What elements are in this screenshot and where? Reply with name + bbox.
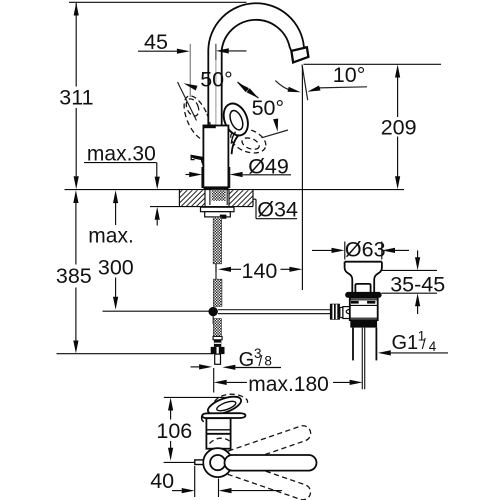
dimension 40	[150, 466, 282, 497]
faucet spout inner arc	[222, 20, 292, 126]
svg-text:4: 4	[429, 339, 437, 354]
dimension max.180	[214, 368, 363, 396]
angle label 50 deg (right swing)	[252, 96, 288, 138]
threaded shank in deck hole	[212, 190, 226, 201]
dimension 385	[56, 190, 92, 354]
mounting washer	[201, 207, 235, 212]
angle label 50 deg (left swing)	[178, 68, 259, 121]
loop handle tilted (plan view)	[206, 393, 244, 418]
aerator block at spout tip	[291, 47, 308, 62]
handle hub circle	[210, 455, 225, 470]
hose end ribbed nut	[214, 340, 221, 347]
hose end hex	[213, 336, 222, 339]
svg-text:Ø63: Ø63	[345, 237, 386, 261]
lever handle (side)	[191, 155, 204, 160]
svg-text:50°: 50°	[200, 68, 233, 92]
label G1 1/4	[378, 329, 448, 356]
counter deck hatched right	[229, 190, 253, 206]
faucet spout outer arc	[208, 3, 306, 125]
handle lever (solid position)	[225, 455, 317, 471]
dimension 106	[156, 398, 194, 463]
dimension 45	[138, 30, 247, 125]
dashed handle position down	[221, 458, 312, 500]
hose end level extension line	[57, 353, 214, 355]
G3/8 thread stem	[215, 354, 221, 364]
dashed handle position right	[227, 124, 269, 158]
counter deck hatched left	[179, 190, 205, 206]
svg-text:Ø34: Ø34	[257, 197, 298, 221]
svg-text:50°: 50°	[252, 96, 285, 120]
pop-up lift collar	[355, 284, 370, 292]
pop-up tail pipe	[352, 328, 354, 361]
tilted outlet axis line	[302, 65, 308, 101]
svg-text:10°: 10°	[333, 63, 366, 87]
deck bottom line	[150, 206, 253, 208]
hose axis segment	[215, 264, 217, 279]
body top thick cap	[204, 125, 216, 129]
junction of pop-up rod and hose	[209, 307, 218, 316]
svg-text:Ø49: Ø49	[248, 155, 289, 179]
mounting nut	[205, 212, 231, 217]
dimension Ø63	[312, 237, 409, 261]
flexible hose middle section	[213, 279, 222, 306]
svg-text:35-45: 35-45	[390, 273, 445, 297]
pop-up waste: coupling nut	[330, 304, 340, 320]
loop handle (solid, centre position)	[219, 100, 252, 154]
dashed handle swing arc (plan)	[215, 394, 248, 403]
pop-up waste top cup	[345, 261, 382, 263]
dimension 35-45	[382, 250, 446, 314]
tick line centre position (double arrow)	[238, 82, 259, 98]
pop-up body lower black band	[350, 320, 377, 328]
label G 3/8	[191, 346, 282, 371]
dimension 311	[59, 3, 93, 190]
lever tip curl	[202, 414, 204, 422]
svg-text:385: 385	[56, 264, 92, 288]
svg-text:300: 300	[98, 256, 134, 280]
supply level extension line	[103, 310, 210, 312]
svg-text:311: 311	[59, 86, 93, 110]
dimension max.300	[88, 190, 134, 310]
angle label 10 deg (spout outlet)	[275, 63, 367, 100]
pop-up body	[350, 298, 378, 320]
bottom view body	[206, 418, 230, 449]
svg-text:8: 8	[264, 354, 272, 369]
spout outlet vertical axis extension	[301, 66, 303, 290]
pop-up waste: rod connector	[340, 307, 343, 317]
dimension 209	[381, 65, 417, 190]
body base gasket	[204, 187, 229, 190]
flexible hose lower section	[213, 319, 221, 337]
dimension 140	[216, 259, 302, 284]
svg-text:G1: G1	[392, 332, 419, 354]
svg-text:140: 140	[242, 259, 278, 283]
deck reference line (counter top)	[65, 189, 405, 191]
pop-up actuator rod (horizontal)	[218, 309, 330, 311]
svg-text:max.180: max.180	[248, 373, 329, 396]
svg-text:G: G	[239, 349, 255, 371]
dimension max.30	[84, 143, 160, 226]
dimension Ø34	[190, 197, 298, 222]
rod bracket	[220, 215, 227, 219]
svg-text:209: 209	[381, 116, 417, 140]
base cap blade (plan view)	[202, 413, 245, 418]
svg-text:106: 106	[156, 419, 192, 443]
outlet stub	[195, 460, 203, 465]
tick line left position	[178, 82, 197, 121]
dashed handle position left	[179, 92, 217, 143]
hose end collar	[211, 347, 225, 354]
pop-up flange (black)	[345, 292, 381, 298]
spout outlet level extension line	[304, 63, 442, 65]
svg-text:45: 45	[144, 30, 168, 54]
dimension Ø49	[186, 155, 292, 189]
dashed handle position up	[221, 424, 312, 468]
deck edges	[178, 190, 180, 207]
flexible hose upper section	[213, 217, 221, 264]
escutcheon circle	[203, 448, 232, 477]
svg-text:max.: max.	[88, 225, 134, 248]
svg-text:40: 40	[150, 469, 174, 493]
faucet body	[203, 126, 228, 188]
106 top extension line	[164, 396, 228, 398]
top extension line from spout top to 311 dimension	[69, 1, 247, 3]
